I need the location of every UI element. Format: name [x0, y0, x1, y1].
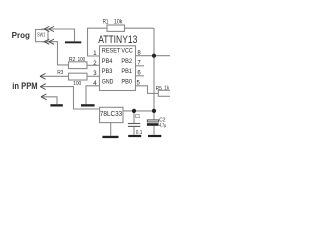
svg-text:PB2: PB2: [121, 59, 132, 65]
capacitor C2: [153, 111, 155, 120]
svg-text:GND: GND: [102, 79, 114, 85]
svg-text:RESET: RESET: [102, 49, 121, 55]
connector chevron bottom (SW1): [44, 39, 49, 44]
pin numbers: [93, 51, 141, 87]
svg-text:78LC33: 78LC33: [100, 109, 122, 118]
wire pin 6 stub: [136, 75, 145, 77]
svg-text:PB4: PB4: [102, 59, 113, 65]
wire SW1 top to ground: [42, 29, 75, 41]
wire pin 4 GND: [86, 86, 100, 104]
wire arrow1 to R3: [40, 75, 69, 77]
svg-text:in PPM: in PPM: [12, 81, 38, 91]
svg-text:PB0: PB0: [121, 79, 132, 85]
svg-text:PB3: PB3: [102, 69, 113, 75]
wire SW1 bottom to R2: [42, 42, 69, 65]
pin labels columns: [102, 49, 134, 86]
ground (SW1 top): [65, 41, 81, 43]
ground (pin 4): [81, 104, 95, 106]
connector chevron top (SW1): [44, 26, 49, 31]
wire pin 7 stub: [136, 65, 145, 67]
resistor R2: [69, 62, 88, 69]
svg-text:R1: R1: [103, 18, 109, 25]
svg-text:R2: R2: [69, 57, 76, 63]
arrow in PPM minus: [41, 94, 47, 100]
svg-text:ATTINY13: ATTINY13: [98, 34, 137, 46]
wire regulator output rail: [123, 110, 154, 112]
svg-text:R3: R3: [57, 70, 63, 76]
arrow in PPM signal: [40, 73, 46, 79]
wire R3 to pin 3: [87, 75, 100, 77]
svg-text:100: 100: [73, 81, 81, 87]
resistor R5: [158, 90, 171, 96]
node C1 junction: [132, 109, 136, 113]
capacitor C2 negative plate: [147, 123, 159, 126]
svg-text:R5: R5: [156, 86, 162, 92]
wire regulator ground pin: [110, 123, 112, 136]
wire R2 to pin 2: [87, 64, 100, 66]
wire VCC vertical: [153, 28, 155, 111]
capacitor C1: [133, 111, 135, 123]
svg-text:PB1: PB1: [121, 69, 132, 75]
svg-text:10k: 10k: [114, 18, 123, 25]
wire R1 left to pin 1: [88, 28, 108, 56]
switch SW1: [36, 30, 49, 42]
wire R1 right to VCC node: [125, 27, 155, 29]
ground (C1): [128, 135, 141, 137]
voltage regulator 78LC33: [100, 107, 123, 122]
op-amp U1 ATTINY13 box: [100, 46, 136, 91]
wire arrow3 to ground: [41, 97, 57, 104]
ground (C2): [148, 135, 161, 137]
wire pin 8 VCC rail: [136, 55, 171, 57]
svg-text:1k: 1k: [164, 85, 169, 91]
svg-text:VCC: VCC: [121, 49, 133, 55]
ground (PPM minus): [50, 104, 62, 106]
node VCC junction: [152, 54, 156, 58]
svg-text:SW1: SW1: [37, 32, 45, 38]
node C2 junction: [152, 109, 156, 113]
arrow in PPM plus: [40, 84, 46, 90]
ground (regulator): [102, 136, 118, 138]
svg-text:0.1: 0.1: [136, 130, 143, 136]
resistor R1: [107, 25, 125, 31]
svg-text:C1: C1: [135, 114, 140, 120]
resistor R3: [69, 73, 88, 80]
svg-text:100: 100: [78, 57, 86, 63]
wire pin 5 to R5: [136, 86, 159, 94]
svg-text:Prog: Prog: [12, 30, 30, 40]
svg-text:4,7µ: 4,7µ: [159, 123, 166, 129]
svg-text:2: 2: [93, 61, 97, 67]
wire arrow2 to regulator input: [40, 87, 99, 109]
